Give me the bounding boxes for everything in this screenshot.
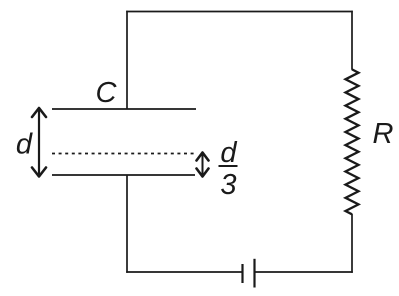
dimension arrow d/3 (shaft) <box>202 153 204 176</box>
wire left lower <box>126 175 128 273</box>
wire right lower <box>351 214 353 273</box>
svg-text:d: d <box>220 137 237 169</box>
arrowhead down (d) <box>32 168 46 177</box>
svg-text:d: d <box>16 129 33 161</box>
battery negative plate (short) <box>241 264 243 283</box>
fraction bar <box>219 165 238 167</box>
wire bottom left <box>126 271 242 273</box>
arrowhead up (d/3) <box>197 153 209 161</box>
resistor R zigzag <box>346 69 359 214</box>
dotted line (d/3 level) <box>52 153 196 155</box>
wire top <box>126 11 353 13</box>
svg-text:C: C <box>96 77 118 109</box>
wire right upper <box>351 11 353 70</box>
arrowhead up (d) <box>32 108 46 117</box>
arrowhead down (d/3) <box>197 169 209 177</box>
svg-text:3: 3 <box>220 169 236 201</box>
capacitor C top plate <box>52 108 196 110</box>
capacitor C bottom plate <box>52 174 195 176</box>
wire bottom right <box>255 271 353 273</box>
wire left upper <box>126 11 128 110</box>
dimension arrow d (shaft) <box>38 109 40 177</box>
battery positive plate (long) <box>253 259 255 288</box>
svg-text:R: R <box>373 118 394 150</box>
